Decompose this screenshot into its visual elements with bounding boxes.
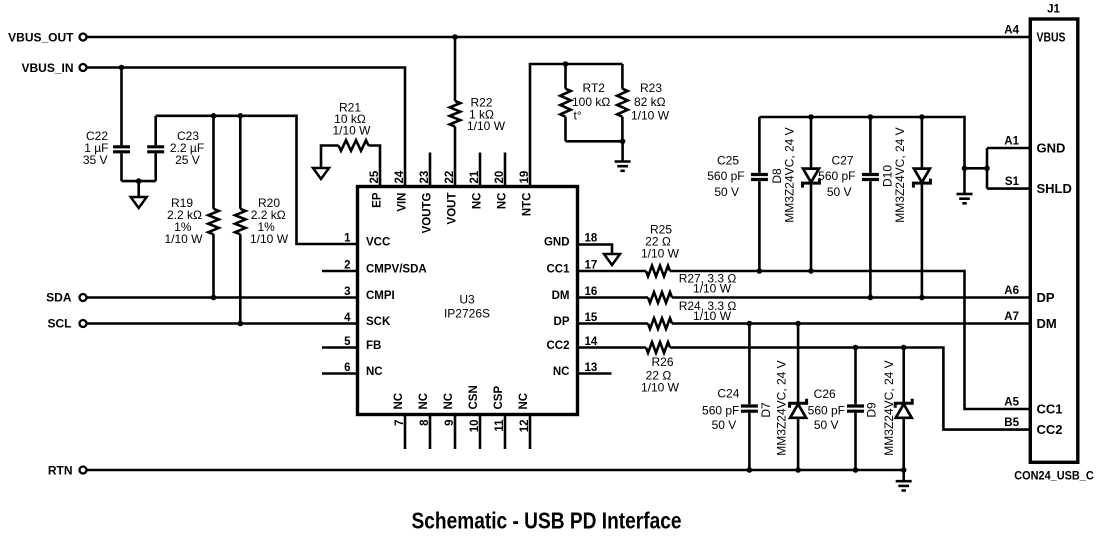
svg-text:MM3Z24VC, 24 V: MM3Z24VC, 24 V bbox=[893, 127, 907, 222]
svg-text:SHLD: SHLD bbox=[1037, 181, 1072, 196]
svg-text:560 pF: 560 pF bbox=[818, 169, 855, 183]
svg-text:20: 20 bbox=[494, 171, 506, 184]
svg-text:24: 24 bbox=[394, 170, 406, 183]
pin 14 name CC2 bbox=[546, 340, 569, 352]
svg-text:7: 7 bbox=[394, 420, 406, 426]
pin 11 number bbox=[494, 419, 506, 432]
pin 18 name GND bbox=[544, 237, 570, 249]
junction CC2/C26 bbox=[853, 345, 859, 351]
resistor R20 bbox=[235, 209, 246, 235]
label R26 bbox=[641, 355, 680, 395]
svg-text:1/10 W: 1/10 W bbox=[693, 309, 732, 323]
zener diode D9 bbox=[895, 399, 912, 418]
pin 22 number bbox=[444, 171, 456, 184]
svg-text:CC1: CC1 bbox=[546, 264, 570, 276]
pin 19 number bbox=[519, 171, 531, 184]
svg-text:MM3Z24VC, 24 V: MM3Z24VC, 24 V bbox=[775, 360, 789, 455]
svg-text:D7: D7 bbox=[759, 402, 773, 418]
wire RT2/R23 bottom rail bbox=[566, 140, 623, 143]
svg-text:C27: C27 bbox=[831, 153, 853, 167]
svg-text:A7: A7 bbox=[1004, 311, 1019, 323]
pin 1 number bbox=[344, 233, 351, 245]
pin 23 name VOUTG bbox=[422, 192, 434, 233]
svg-text:10: 10 bbox=[469, 420, 481, 433]
pin B5 label bbox=[1004, 417, 1019, 429]
svg-text:t°: t° bbox=[574, 109, 582, 123]
pin GND name bbox=[1037, 140, 1066, 155]
svg-text:22: 22 bbox=[444, 171, 456, 184]
ground (C22/C23) bbox=[131, 197, 147, 208]
thermistor RT2 bbox=[560, 89, 571, 117]
svg-text:1/10 W: 1/10 W bbox=[641, 381, 680, 395]
label R23 bbox=[631, 81, 670, 122]
pin 10 stub bbox=[479, 415, 482, 450]
wire R23 bottom bbox=[621, 117, 624, 142]
junction bracket bbox=[984, 166, 990, 172]
op-amp U3 body bbox=[358, 187, 578, 415]
svg-text:2: 2 bbox=[344, 260, 350, 272]
svg-text:CMPV/SDA: CMPV/SDA bbox=[366, 264, 427, 276]
junction RTN/C26 bbox=[853, 467, 859, 473]
svg-text:MM3Z24VC, 24 V: MM3Z24VC, 24 V bbox=[783, 127, 797, 222]
svg-text:CC2: CC2 bbox=[1037, 422, 1063, 437]
svg-text:23: 23 bbox=[419, 171, 431, 184]
svg-text:S1: S1 bbox=[1005, 176, 1020, 188]
svg-text:NC: NC bbox=[443, 393, 455, 410]
pin 3 number bbox=[344, 286, 350, 298]
junction DP/C24 bbox=[747, 321, 753, 327]
svg-text:CON24_USB_C: CON24_USB_C bbox=[1014, 471, 1094, 483]
pin 3 name CMPI bbox=[366, 290, 395, 302]
svg-text:4: 4 bbox=[344, 312, 351, 324]
pin 11 stub bbox=[504, 415, 507, 450]
label C26 bbox=[808, 387, 845, 432]
label D10 bbox=[881, 127, 908, 222]
label C22 bbox=[83, 129, 109, 167]
capacitor C27 bbox=[862, 175, 879, 180]
junction DP/D7 bbox=[795, 321, 801, 327]
svg-text:MM3Z24VC, 24 V: MM3Z24VC, 24 V bbox=[882, 360, 896, 455]
pin 10 number bbox=[469, 420, 481, 433]
svg-text:DM: DM bbox=[1037, 316, 1057, 331]
pin 21 stub bbox=[479, 153, 482, 187]
svg-text:1/10 W: 1/10 W bbox=[693, 282, 732, 296]
label R22 bbox=[467, 96, 506, 133]
svg-text:DM: DM bbox=[552, 290, 570, 302]
junction SDA/R19 bbox=[211, 295, 217, 301]
pin CC2 name bbox=[1037, 422, 1063, 437]
pin 7 name NC bbox=[393, 393, 405, 410]
zener diode D8 bbox=[803, 169, 820, 188]
svg-text:C26: C26 bbox=[814, 387, 836, 401]
label R27 bbox=[679, 272, 737, 296]
zener diode D10 bbox=[913, 169, 930, 188]
pin 21 number bbox=[469, 170, 481, 183]
resistor R26 bbox=[646, 342, 670, 353]
pin 2 name CMPV/SDA bbox=[366, 264, 427, 276]
wire gnd stub bbox=[137, 181, 140, 197]
wire DM right bbox=[672, 296, 1031, 299]
zener diode D7 bbox=[790, 399, 807, 418]
svg-text:11: 11 bbox=[494, 419, 506, 432]
svg-text:RT2: RT2 bbox=[583, 81, 606, 95]
pin 11 name CSP bbox=[493, 386, 505, 410]
svg-text:VBUS: VBUS bbox=[1037, 29, 1066, 44]
wire D7 bbox=[797, 324, 800, 471]
pin 8 stub bbox=[429, 415, 432, 450]
svg-text:21: 21 bbox=[469, 170, 481, 183]
pin 9 stub bbox=[454, 415, 457, 450]
port VBUS_IN bbox=[21, 61, 86, 75]
junction CC1/D8 bbox=[808, 268, 814, 274]
wire J1 GND bbox=[987, 147, 1031, 150]
wire C23 branch bbox=[154, 116, 157, 181]
svg-text:19: 19 bbox=[519, 171, 531, 184]
pin CC1 name bbox=[1037, 401, 1063, 416]
capacitor C22 bbox=[113, 147, 130, 152]
wire VBUS_IN to pin 24 bbox=[87, 68, 406, 187]
pin 5 name FB bbox=[366, 340, 381, 352]
svg-text:1/10 W: 1/10 W bbox=[164, 232, 203, 246]
connector J1 body bbox=[1030, 19, 1078, 462]
resistor R19 bbox=[208, 209, 219, 235]
junction RT2/R23 gnd bbox=[620, 139, 626, 145]
wire R20 top bbox=[239, 116, 242, 209]
svg-text:NC: NC bbox=[553, 366, 570, 378]
svg-text:VIN: VIN bbox=[397, 193, 409, 212]
svg-text:R26: R26 bbox=[651, 355, 673, 369]
resistor R25 bbox=[646, 266, 670, 277]
pin 23 number bbox=[419, 171, 431, 184]
label R19 bbox=[164, 196, 203, 246]
ground (RTN) bbox=[896, 481, 912, 490]
pin 8 name NC bbox=[418, 393, 430, 410]
junction rail/R20 bbox=[238, 113, 244, 119]
pin A7 label bbox=[1004, 311, 1019, 323]
svg-text:6: 6 bbox=[344, 362, 350, 374]
svg-text:50 V: 50 V bbox=[814, 418, 839, 432]
wire top rail bbox=[759, 117, 964, 194]
svg-text:9: 9 bbox=[444, 420, 456, 426]
svg-text:J1: J1 bbox=[1047, 4, 1060, 16]
pin 14 number bbox=[585, 336, 598, 348]
svg-text:CC2: CC2 bbox=[546, 340, 569, 352]
svg-text:VCC: VCC bbox=[366, 237, 390, 249]
junction rail/C27 bbox=[868, 114, 874, 120]
junction RTN/D7 bbox=[795, 467, 801, 473]
svg-text:CMPI: CMPI bbox=[366, 290, 395, 302]
svg-text:NTC: NTC bbox=[522, 193, 534, 217]
svg-text:560 pF: 560 pF bbox=[808, 403, 845, 417]
wire R21 to pin 25 bbox=[369, 146, 381, 187]
pin 24 number bbox=[394, 170, 406, 183]
wire gnd stub RT2 bbox=[621, 141, 624, 161]
svg-text:A4: A4 bbox=[1004, 25, 1019, 37]
label D7 bbox=[759, 360, 789, 455]
wire CC1 left bbox=[578, 270, 647, 273]
capacitor C26 bbox=[847, 406, 864, 411]
svg-text:VBUS_IN: VBUS_IN bbox=[21, 61, 73, 75]
svg-text:35 V: 35 V bbox=[83, 153, 108, 167]
wire RTN net bbox=[87, 469, 904, 472]
resistor R23 bbox=[617, 89, 628, 117]
pin 9 number bbox=[444, 420, 456, 426]
pin 20 stub bbox=[504, 153, 507, 187]
wire DP left bbox=[578, 322, 649, 325]
svg-text:25 V: 25 V bbox=[175, 153, 200, 167]
pin 6 name NC bbox=[366, 366, 383, 378]
svg-text:100 kΩ: 100 kΩ bbox=[572, 95, 610, 109]
pin 7 stub bbox=[404, 415, 407, 450]
svg-text:NC: NC bbox=[418, 393, 430, 410]
wire R19 top bbox=[212, 116, 215, 209]
pin 17 number bbox=[585, 260, 598, 272]
junction VBUS_OUT/R22 bbox=[452, 34, 458, 40]
wire VCC rail bbox=[156, 116, 358, 244]
junction RTN/C24 bbox=[747, 467, 753, 473]
svg-text:1/10 W: 1/10 W bbox=[250, 232, 289, 246]
label R21 bbox=[332, 100, 371, 137]
wire bracket bbox=[965, 148, 988, 189]
svg-text:1/10 W: 1/10 W bbox=[631, 109, 670, 123]
wire DP right bbox=[672, 322, 1031, 325]
pin 24 name VIN bbox=[397, 193, 409, 212]
pin 7 number bbox=[394, 420, 406, 426]
pin 13 number bbox=[585, 362, 598, 374]
junction SCL/R20 bbox=[238, 321, 244, 327]
wire R20 bottom bbox=[239, 234, 242, 323]
pin SHLD name bbox=[1037, 181, 1072, 196]
resistor R22 bbox=[450, 101, 461, 127]
ground (RT2/R23) bbox=[615, 162, 631, 171]
svg-text:NC: NC bbox=[472, 193, 484, 210]
junction DM/D10 bbox=[919, 295, 925, 301]
junction rail/R19 bbox=[211, 113, 217, 119]
pin 25 number bbox=[369, 170, 381, 183]
pin 20 number bbox=[494, 171, 506, 184]
wire DM left bbox=[578, 296, 649, 299]
pin 5 stub bbox=[322, 346, 358, 349]
wire C25 bbox=[758, 117, 761, 271]
svg-text:NC: NC bbox=[518, 393, 530, 410]
svg-text:82 kΩ: 82 kΩ bbox=[634, 95, 666, 109]
wire CC1 right bbox=[670, 271, 1031, 409]
wire C22 branch bbox=[120, 68, 123, 182]
svg-text:SDA: SDA bbox=[46, 291, 72, 305]
port SCL bbox=[48, 317, 87, 331]
wire RTN gnd stub bbox=[902, 470, 905, 481]
wire D10 bbox=[921, 117, 924, 298]
svg-text:SCK: SCK bbox=[366, 316, 391, 328]
svg-text:A1: A1 bbox=[1004, 136, 1019, 148]
pin 18 number bbox=[585, 233, 598, 245]
pin 4 number bbox=[344, 312, 351, 324]
svg-text:560 pF: 560 pF bbox=[702, 403, 739, 417]
pin 25 name EP bbox=[372, 192, 384, 208]
label CON24_USB_C bbox=[1014, 471, 1094, 483]
ground (pin 18) bbox=[604, 254, 620, 265]
junction rail/bracket bbox=[962, 166, 968, 172]
svg-text:50 V: 50 V bbox=[827, 185, 852, 199]
junction CC2/D9 bbox=[901, 345, 907, 351]
pin 16 number bbox=[585, 286, 598, 298]
ground (R21) bbox=[313, 168, 329, 179]
svg-text:FB: FB bbox=[366, 340, 381, 352]
pin 22 name VOUT bbox=[447, 193, 459, 225]
pin DP name bbox=[1037, 290, 1055, 305]
port RTN bbox=[48, 464, 87, 478]
svg-text:560 pF: 560 pF bbox=[707, 169, 744, 183]
svg-text:8: 8 bbox=[419, 419, 431, 426]
pin 4 name SCK bbox=[366, 316, 391, 328]
pin 9 name NC bbox=[443, 393, 455, 410]
capacitor C24 bbox=[741, 406, 758, 411]
pin 17 name CC1 bbox=[546, 264, 570, 276]
svg-text:25: 25 bbox=[369, 170, 381, 183]
svg-text:SCL: SCL bbox=[48, 317, 72, 331]
svg-text:3: 3 bbox=[344, 286, 350, 298]
label RT2 bbox=[572, 81, 610, 122]
wire C24 bbox=[748, 324, 751, 471]
junction rail/D8 bbox=[808, 114, 814, 120]
ground (top rail) bbox=[957, 194, 973, 203]
svg-text:50 V: 50 V bbox=[714, 185, 739, 199]
pin 2 stub bbox=[322, 270, 358, 273]
wire CC2 right bbox=[670, 348, 1031, 430]
svg-text:Schematic - USB PD Interface: Schematic - USB PD Interface bbox=[412, 508, 682, 534]
label C27 bbox=[818, 153, 855, 198]
svg-text:DP: DP bbox=[554, 316, 570, 328]
resistor R21 bbox=[339, 140, 369, 151]
pin 15 number bbox=[585, 312, 598, 324]
wire pin 18 gnd bbox=[578, 245, 613, 255]
wire RT2 top bbox=[564, 64, 567, 89]
svg-text:CC1: CC1 bbox=[1037, 401, 1063, 416]
pin 21 name NC bbox=[472, 193, 484, 210]
pin 6 stub bbox=[322, 372, 358, 375]
svg-text:50 V: 50 V bbox=[712, 418, 737, 432]
wire R21 left bbox=[321, 146, 339, 169]
svg-text:DP: DP bbox=[1037, 290, 1055, 305]
junction NTC rail/RT2 bbox=[563, 61, 569, 67]
wire J1 SHLD bbox=[987, 187, 1031, 190]
pin 6 number bbox=[344, 362, 350, 374]
wire R22 top bbox=[454, 37, 457, 101]
svg-text:A6: A6 bbox=[1004, 285, 1019, 297]
svg-text:CSP: CSP bbox=[493, 386, 505, 410]
junction DM/C27 bbox=[868, 295, 874, 301]
svg-text:B5: B5 bbox=[1004, 417, 1019, 429]
svg-text:1: 1 bbox=[344, 233, 351, 245]
svg-text:1/10 W: 1/10 W bbox=[641, 247, 680, 261]
pin 15 name DP bbox=[554, 316, 570, 328]
wire R23 top bbox=[621, 64, 624, 89]
pin A5 label bbox=[1004, 397, 1019, 409]
wire NTC to rail bbox=[530, 64, 622, 187]
svg-text:NC: NC bbox=[366, 366, 383, 378]
svg-text:VBUS_OUT: VBUS_OUT bbox=[8, 31, 74, 45]
svg-text:5: 5 bbox=[344, 336, 351, 348]
svg-text:U3: U3 bbox=[459, 293, 475, 307]
label D9 bbox=[865, 360, 897, 455]
pin A4 label bbox=[1004, 25, 1019, 37]
label C23 bbox=[170, 129, 204, 167]
junction VBUS_IN/C22 bbox=[119, 65, 125, 71]
label R25 bbox=[641, 223, 680, 261]
label U3 bbox=[444, 293, 490, 321]
pin S1 label bbox=[1005, 176, 1020, 188]
wire C22/C23 bottom rail bbox=[122, 180, 156, 183]
pin 19 name NTC bbox=[522, 193, 534, 217]
pin 16 name DM bbox=[552, 290, 570, 302]
wire R19 bottom bbox=[212, 234, 215, 297]
svg-text:NC: NC bbox=[497, 193, 509, 210]
pin 12 name NC bbox=[518, 393, 530, 410]
svg-text:12: 12 bbox=[519, 420, 531, 433]
label C25 bbox=[707, 153, 744, 198]
label J1 bbox=[1047, 4, 1060, 16]
junction RTN/D9 bbox=[901, 467, 907, 473]
svg-text:R23: R23 bbox=[640, 81, 662, 95]
svg-text:IP2726S: IP2726S bbox=[444, 307, 490, 321]
wire D9 bbox=[902, 348, 905, 471]
pin DM name bbox=[1037, 316, 1057, 331]
svg-text:NC: NC bbox=[393, 393, 405, 410]
pin 8 number bbox=[419, 419, 431, 426]
wire RT2 bottom bbox=[564, 117, 567, 142]
junction CC1/C25 bbox=[757, 268, 763, 274]
junction gnd C22/C23 bbox=[136, 178, 142, 184]
svg-text:GND: GND bbox=[544, 237, 570, 249]
port VBUS_OUT bbox=[8, 31, 86, 45]
pin 12 number bbox=[519, 420, 531, 433]
label R20 bbox=[250, 196, 289, 246]
pin 12 stub bbox=[529, 415, 532, 450]
title bbox=[412, 508, 682, 534]
svg-text:1/10 W: 1/10 W bbox=[332, 124, 371, 138]
label R24 bbox=[679, 299, 737, 323]
svg-text:GND: GND bbox=[1037, 140, 1066, 155]
label C24 bbox=[702, 387, 740, 432]
pin A1 label bbox=[1004, 136, 1019, 148]
svg-text:CSN: CSN bbox=[468, 385, 480, 409]
wire C26 bbox=[854, 348, 857, 471]
resistor R27 bbox=[648, 292, 672, 303]
svg-text:18: 18 bbox=[585, 233, 598, 245]
port SDA bbox=[46, 291, 86, 305]
pin A6 label bbox=[1004, 285, 1019, 297]
pin 5 number bbox=[344, 336, 351, 348]
wire SCL to pin 4 bbox=[87, 322, 358, 325]
pin VBUS name bbox=[1037, 29, 1066, 44]
pin 13 stub wire bbox=[578, 372, 612, 375]
resistor R24 bbox=[648, 318, 672, 329]
svg-text:C24: C24 bbox=[717, 387, 739, 401]
capacitor C25 bbox=[751, 175, 768, 180]
svg-text:VOUT: VOUT bbox=[447, 193, 459, 225]
svg-text:1/10 W: 1/10 W bbox=[467, 119, 506, 133]
label D8 bbox=[770, 127, 797, 222]
svg-text:D9: D9 bbox=[865, 402, 879, 418]
capacitor C23 bbox=[147, 147, 164, 152]
pin 2 number bbox=[344, 260, 350, 272]
wire CC2 left bbox=[578, 346, 647, 349]
pin 13 name NC bbox=[553, 366, 570, 378]
wire SDA to pin 3 bbox=[87, 296, 358, 299]
pin 1 name VCC bbox=[366, 237, 390, 249]
pin 10 name CSN bbox=[468, 385, 480, 409]
wire C27 bbox=[869, 117, 872, 298]
